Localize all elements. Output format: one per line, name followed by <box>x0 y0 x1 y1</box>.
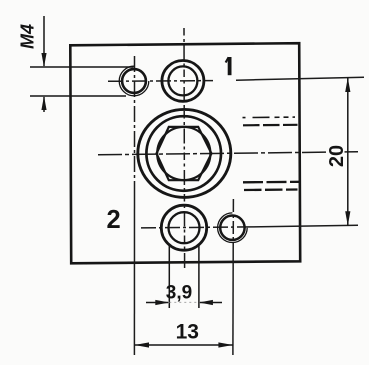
svg-text:3,9: 3,9 <box>166 282 192 303</box>
svg-text:20: 20 <box>326 145 348 167</box>
svg-text:2: 2 <box>107 206 121 234</box>
svg-text:M4: M4 <box>18 24 38 49</box>
svg-text:13: 13 <box>176 321 199 344</box>
